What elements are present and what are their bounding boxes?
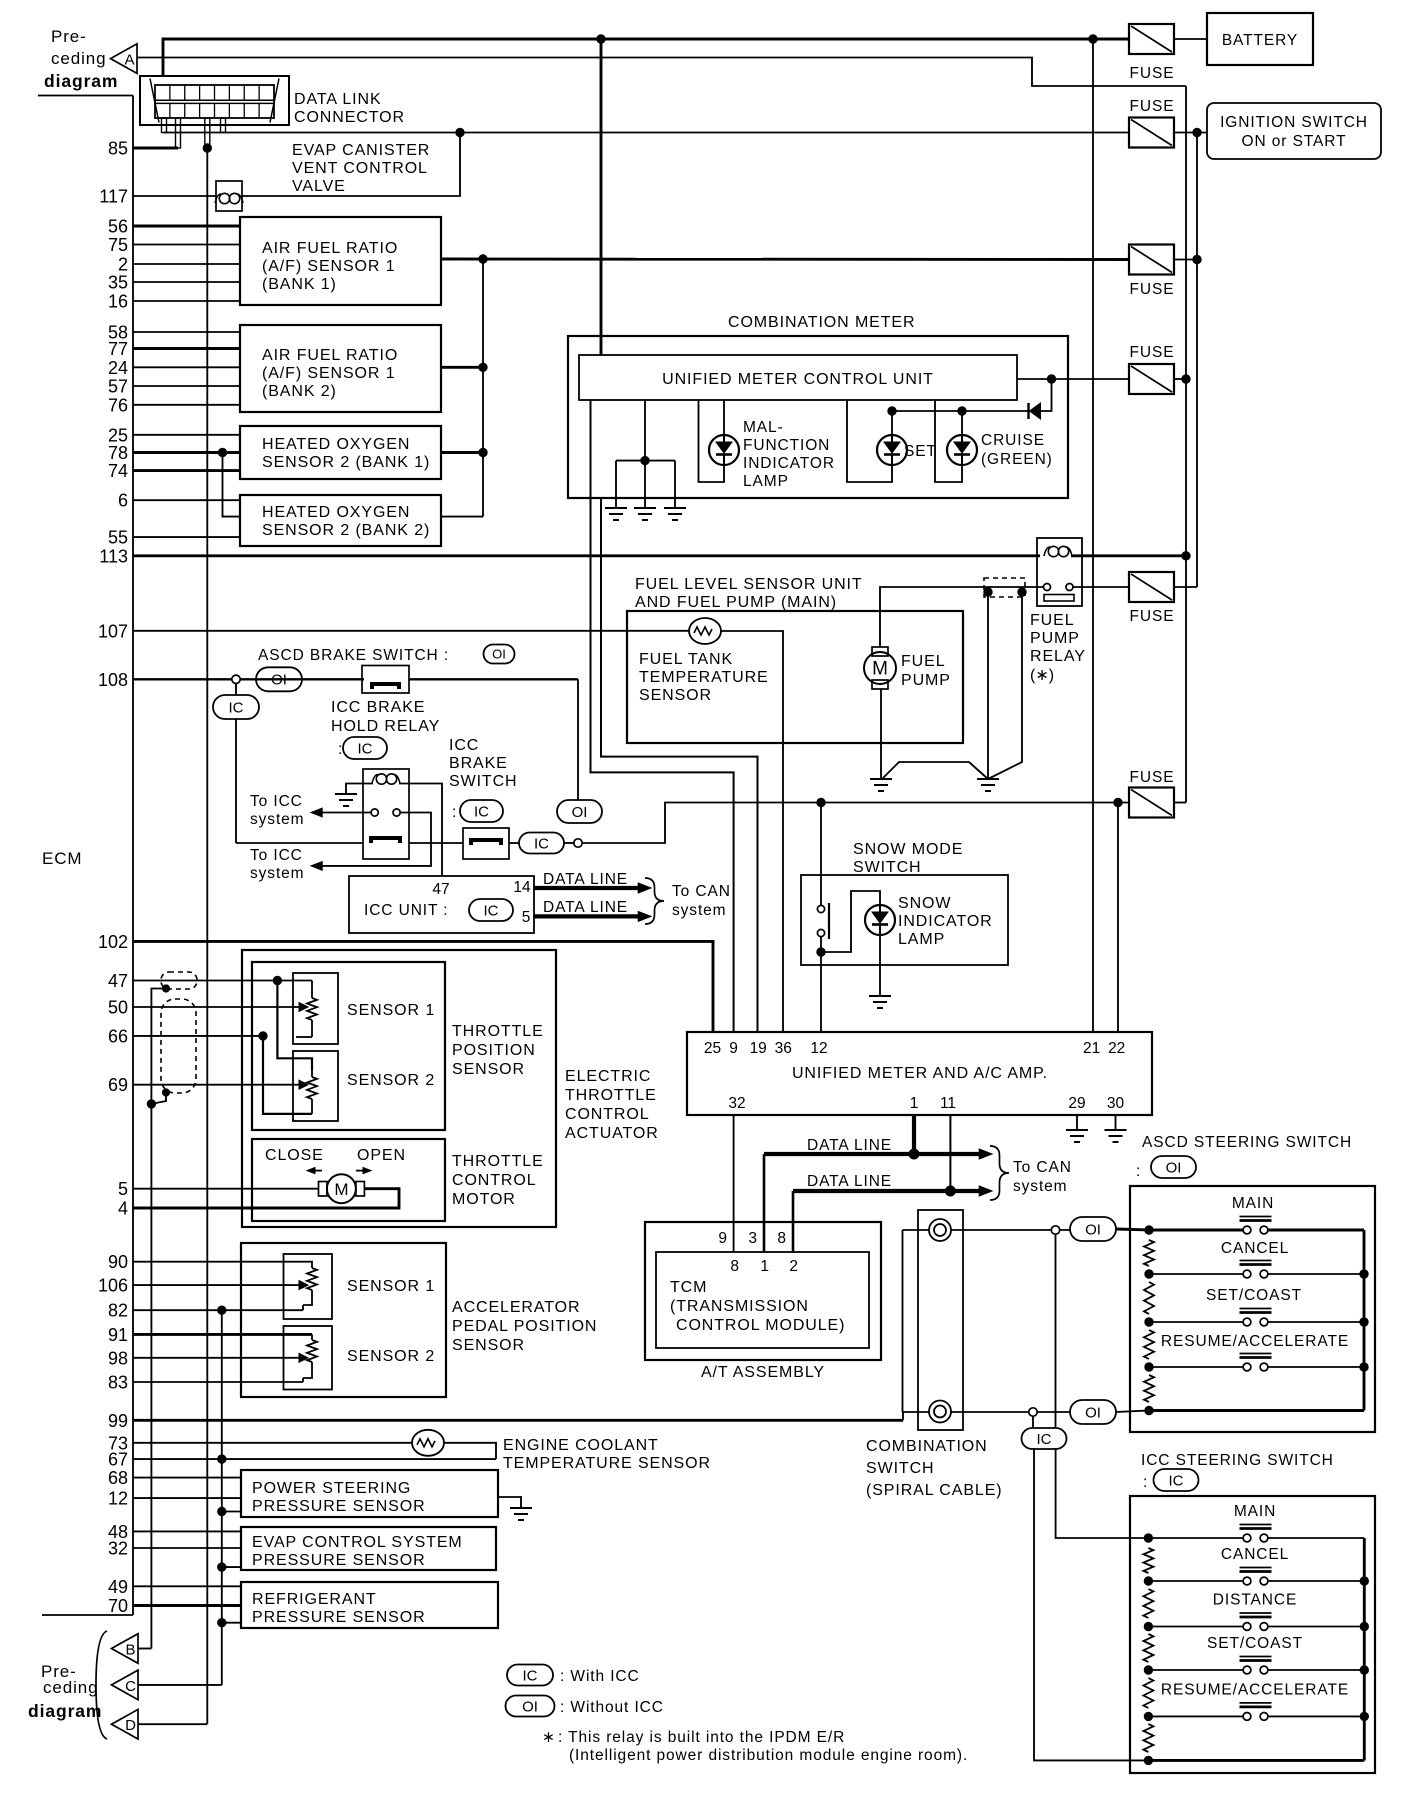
node ICC bottom left (1144, 1756, 1152, 1764)
wire A/F sensor 1 bank1 power (441, 258, 1129, 261)
svg-text:DISTANCE: DISTANCE (1213, 1592, 1297, 1609)
node ICC line connector (1029, 1408, 1037, 1416)
svg-text:2: 2 (789, 1258, 798, 1275)
combination switch spiral cable box (918, 1210, 963, 1430)
wire ECM pin 58 (133, 331, 240, 333)
svg-text:SENSOR: SENSOR (452, 1061, 525, 1078)
wire ECM pin 90 to APP (133, 1261, 303, 1263)
ground PS sensor (510, 1507, 532, 1509)
wire ECM pin 69 to TPS wiper (133, 1084, 294, 1086)
wire ECM pin 91 to APP (133, 1333, 312, 1336)
svg-text:IC: IC (1037, 1431, 1052, 1448)
wire fuel pump relay contact drop (988, 592, 1022, 779)
node ASCD cancel left (1145, 1270, 1153, 1278)
svg-text:(BANK 2): (BANK 2) (262, 383, 337, 400)
svg-text:FUNCTION: FUNCTION (743, 437, 830, 454)
wire CRUISE lamp loop (935, 400, 962, 482)
node pin 67 branch (218, 1455, 226, 1463)
wiper TPS sensor 1 (299, 1003, 308, 1012)
svg-text:OI: OI (1085, 1221, 1101, 1238)
resistor ASCD 2 (1144, 1282, 1154, 1314)
node battery feed junction at combination meter drop (597, 35, 605, 43)
SET indicator LED (877, 435, 907, 465)
wire ICC DISTANCE row (1148, 1626, 1245, 1628)
wire fuse to battery (1174, 38, 1207, 40)
wire ignition bus (1196, 133, 1198, 588)
diode lamp feed (1027, 403, 1029, 419)
svg-text:8: 8 (777, 1230, 786, 1247)
node refrigerant sensor ground (218, 1619, 226, 1627)
wire ECM pin 113 to fuel pump relay coil (133, 554, 1040, 557)
svg-text:32: 32 (728, 1095, 745, 1112)
svg-text:CANCEL: CANCEL (1221, 1546, 1289, 1563)
wire ECM pin 70 (133, 1604, 241, 1607)
ground relay coil (335, 793, 357, 795)
node snow switch feed (817, 798, 825, 806)
IC pill steering feed (1022, 1428, 1067, 1449)
node meter fuse junction (1182, 375, 1190, 383)
svg-text:(A/F) SENSOR 1: (A/F) SENSOR 1 (262, 258, 396, 275)
svg-text:29: 29 (1068, 1095, 1085, 1112)
resistor ICC 1 (1143, 1548, 1153, 1573)
svg-text::: : (1143, 1474, 1147, 1491)
svg-text:FUSE: FUSE (1130, 344, 1175, 361)
svg-text:75: 75 (108, 235, 128, 255)
svg-text:OI: OI (522, 1698, 538, 1715)
DLC pin stub 4 (221, 118, 226, 133)
TPS sensor 1 sub-box (293, 973, 338, 1044)
EVAP control system pressure sensor box (241, 1527, 496, 1570)
svg-text:21: 21 (1083, 1040, 1100, 1057)
heated oxygen sensor 2 bank 1 box (240, 426, 441, 479)
ICC hold relay moving contact (371, 838, 400, 843)
svg-text:HEATED OXYGEN: HEATED OXYGEN (262, 436, 410, 453)
wire ASCD brake switch to drop (409, 678, 578, 680)
svg-text:(∗): (∗) (1030, 667, 1054, 684)
switch ICC CANCEL (1243, 1577, 1251, 1585)
svg-text:∗: ∗ (542, 1729, 555, 1746)
svg-text:ICC: ICC (449, 737, 479, 754)
wire ECM pin 102 to amp pin 25 (133, 941, 713, 1032)
svg-text:PRESSURE SENSOR: PRESSURE SENSOR (252, 1552, 426, 1569)
switch ASCD RESUME/ACCELERATE (1243, 1363, 1251, 1371)
wire pin108 branch down (235, 684, 237, 844)
svg-text:FUSE: FUSE (1130, 281, 1175, 298)
svg-text:CANCEL: CANCEL (1221, 1240, 1289, 1257)
fuel pump motor (864, 652, 896, 684)
malfunction indicator lamp LED (709, 435, 739, 465)
svg-text:system: system (1013, 1178, 1068, 1195)
data line amp 2 (793, 1189, 985, 1193)
svg-text:FUEL: FUEL (901, 653, 946, 670)
svg-text:SNOW: SNOW (898, 895, 951, 912)
wire ASCD connector branch down (1055, 1234, 1057, 1429)
wire relay coil to ground (346, 784, 373, 794)
wire IC pill to ICC bottom (1034, 1448, 1148, 1760)
wire ECM pin 55 (133, 536, 240, 538)
accelerator pedal position sensor box (241, 1243, 446, 1397)
svg-text:system: system (250, 865, 305, 882)
svg-text:FUEL TANK: FUEL TANK (639, 651, 733, 668)
fuel tank temperature sensor thermistor (689, 618, 721, 644)
svg-text:TCM: TCM (670, 1279, 707, 1296)
svg-text:FUEL: FUEL (1030, 612, 1075, 629)
svg-text:49: 49 (108, 1577, 128, 1597)
svg-text:SNOW MODE: SNOW MODE (853, 841, 963, 858)
svg-text:117: 117 (99, 187, 128, 207)
legend IC pill (507, 1665, 553, 1686)
wire relay contact to ICC system 2 (321, 813, 431, 866)
svg-text:LAMP: LAMP (743, 473, 789, 490)
svg-text:RESUME/ACCELERATE: RESUME/ACCELERATE (1161, 1681, 1349, 1698)
wire ICC CANCEL row (1148, 1580, 1245, 1582)
svg-text:DATA LINE: DATA LINE (543, 899, 628, 916)
wire ECM pin 25 (133, 434, 240, 436)
wire EVAP sensor ground branch (222, 1566, 241, 1568)
wire diode to fuse tap (1040, 379, 1052, 411)
wire spiral cable riser (902, 1412, 904, 1420)
wire connector to snow feed (582, 803, 1129, 844)
wire ECT sensor return (444, 1443, 496, 1459)
svg-text:SENSOR 2 (BANK 2): SENSOR 2 (BANK 2) (262, 522, 430, 539)
svg-text:3: 3 (748, 1230, 757, 1247)
svg-text:14: 14 (513, 879, 531, 896)
data line ICC 2 (534, 914, 644, 918)
connector triangle A (111, 44, 138, 74)
connector triangle C (112, 1670, 139, 1700)
ICC brake hold relay box (363, 769, 409, 859)
svg-text:BATTERY: BATTERY (1222, 32, 1298, 49)
wire ECM pin 24 (133, 366, 240, 368)
wire HO2S bank1 power (441, 451, 483, 454)
wiper TPS sensor 2 (299, 1080, 308, 1089)
ground snow lamp (869, 995, 891, 997)
svg-text:IC: IC (484, 902, 499, 919)
svg-text:56: 56 (108, 217, 128, 237)
svg-text:25: 25 (704, 1040, 721, 1057)
node pin 78 shield tap (218, 448, 226, 456)
node ignition bus junction (1193, 128, 1201, 136)
wire ECM pin 82 to APP (133, 1309, 303, 1311)
svg-text:OI: OI (492, 647, 506, 662)
DLC pin stub 3 (205, 118, 210, 148)
wire ECM pin 50 to TPS wiper (133, 1006, 294, 1008)
svg-text:47: 47 (432, 881, 449, 898)
svg-text:OPEN: OPEN (357, 1147, 406, 1164)
data line ICC 1 (534, 886, 644, 890)
svg-text:INDICATOR: INDICATOR (898, 913, 993, 930)
wire meter ground bracket (644, 400, 646, 461)
wire ECM pin 56 (133, 225, 240, 228)
wire TPS return to sensor 2 (263, 1036, 312, 1114)
svg-text:5: 5 (118, 1179, 128, 1199)
svg-text:2: 2 (118, 255, 128, 275)
wire ICC brake switch to connector (509, 842, 519, 844)
svg-text:To CAN: To CAN (1013, 1159, 1072, 1176)
svg-text:78: 78 (108, 443, 128, 463)
svg-text:OI: OI (1166, 1159, 1182, 1176)
switch ICC SET/COAST (1243, 1666, 1251, 1674)
wire ECM pin 47 to TPS (133, 980, 312, 982)
node pin 82 branch (218, 1306, 226, 1314)
wire from triangle A to right bus (137, 58, 1186, 87)
svg-text:HEATED OXYGEN: HEATED OXYGEN (262, 504, 410, 521)
node ICC RESUME/ACCELERATE right (1360, 1712, 1368, 1720)
svg-text:35: 35 (108, 273, 128, 293)
wire ECM pin 74 (133, 469, 240, 472)
svg-text:IC: IC (358, 740, 373, 757)
svg-text:To ICC: To ICC (250, 847, 303, 864)
connector triangle D (112, 1709, 139, 1739)
TCM box (656, 1252, 869, 1348)
wire DLC ground line to connector D (206, 148, 208, 1724)
svg-text:ICC BRAKE: ICC BRAKE (331, 699, 425, 716)
node junction EVAP valve feed (456, 128, 464, 136)
wire ECM pin 67 (133, 1458, 496, 1460)
wire ECM pin 107 (133, 630, 690, 632)
node ASCD main left (1145, 1226, 1153, 1234)
wire amp pin 11 drop (949, 1115, 951, 1191)
wire triangle D (138, 1723, 207, 1725)
wire battery bus to meter amp pin 21 (1092, 39, 1094, 1032)
svg-text:PRESSURE SENSOR: PRESSURE SENSOR (252, 1498, 426, 1515)
svg-text:ceding: ceding (51, 49, 107, 68)
OI pill ICC steering feed (1070, 1400, 1116, 1424)
svg-text:VENT CONTROL: VENT CONTROL (292, 160, 428, 177)
svg-text:Pre-: Pre- (51, 27, 87, 46)
throttle position sensor box (252, 962, 445, 1130)
wire ECM pin 73 to ECT sensor (133, 1442, 413, 1444)
node meter fuse tap (1047, 375, 1055, 383)
IC pill pin108 branch (213, 695, 259, 719)
svg-text:102: 102 (98, 932, 128, 952)
wire ECM pin 106 to APP wiper (133, 1284, 294, 1286)
svg-text:36: 36 (775, 1040, 792, 1057)
node ICC RESUME/ACCELERATE left (1144, 1712, 1152, 1720)
svg-text:A: A (124, 52, 134, 69)
wire ECM pin 35 (133, 281, 240, 283)
wire shield tall drain (151, 1093, 166, 1104)
svg-text:DATA LINE: DATA LINE (807, 1137, 892, 1154)
svg-text:ceding: ceding (43, 1678, 99, 1697)
wire meter output to amp pin 19 (601, 498, 758, 1032)
wire ECM pin 85 (133, 147, 178, 150)
wire ECM pin 49 (133, 1585, 241, 1587)
svg-text:1: 1 (910, 1095, 919, 1112)
wire thermistor to meter amp pin 36 (721, 631, 783, 1032)
wire OI pill to ASCD switch box (1116, 1229, 1149, 1230)
fuse battery (1129, 24, 1174, 54)
svg-text:SENSOR 1: SENSOR 1 (347, 1278, 435, 1295)
svg-text:69: 69 (108, 1075, 128, 1095)
wire ICC bottom row (1148, 1759, 1364, 1762)
svg-text:system: system (672, 902, 727, 919)
svg-text::: : (338, 741, 342, 758)
wire snow lamp branch (821, 891, 880, 952)
node HO2S bank1 power junction (479, 448, 487, 456)
wire unified meter control unit to fuse (1017, 378, 1129, 380)
wire EVAP valve to ignition feed (242, 133, 460, 197)
wire ICC RESUME/ACCELERATE row (1148, 1715, 1245, 1717)
svg-text:ACCELERATOR: ACCELERATOR (452, 1299, 580, 1316)
fuel pump relay contacts (1044, 584, 1051, 591)
throttle motor (327, 1174, 356, 1203)
svg-text:82: 82 (108, 1301, 128, 1321)
wire pin 22 bus (1117, 803, 1119, 1033)
wire snow lamp to ground (879, 935, 881, 995)
wire relay line to pin108 branch (236, 842, 363, 844)
svg-text:106: 106 (98, 1276, 128, 1296)
ICC brake hold relay coil (372, 775, 378, 784)
ICC steering switch box (1130, 1496, 1375, 1773)
node fuse line to pin22 (1114, 798, 1122, 806)
node SET lamp feed (888, 407, 896, 415)
svg-text:THROTTLE: THROTTLE (452, 1153, 544, 1170)
svg-text:DATA LINE: DATA LINE (807, 1173, 892, 1190)
node A/F fuse to ignition bus (1193, 255, 1201, 263)
svg-text:83: 83 (108, 1373, 128, 1393)
svg-text:SENSOR: SENSOR (452, 1337, 525, 1354)
wire fuel pump fuse to ignition bus (1174, 586, 1197, 588)
resistor ASCD 3 (1144, 1330, 1154, 1359)
svg-text:SWITCH: SWITCH (449, 773, 518, 790)
node shield drain junction (147, 1100, 155, 1108)
wire DLC to ignition fuse (164, 132, 1129, 134)
svg-text:4: 4 (118, 1199, 128, 1219)
svg-text:BRAKE: BRAKE (449, 755, 508, 772)
wire fuse to ignition switch (1174, 132, 1207, 134)
data line amp 1 (764, 1152, 985, 1156)
svg-text:SENSOR 2 (BANK 1): SENSOR 2 (BANK 1) (262, 454, 430, 471)
node ASCD bottom left (1145, 1406, 1153, 1414)
wire OI pill to ASCD box bottom (1116, 1411, 1149, 1413)
svg-text:PUMP: PUMP (901, 672, 951, 689)
svg-text:TEMPERATURE: TEMPERATURE (639, 669, 769, 686)
ground amp pin 29 (1066, 1129, 1088, 1131)
shielded cable loop pin 47 (dashed) (161, 972, 197, 989)
data link connector (140, 76, 289, 125)
wire to ASCD brake switch (240, 678, 364, 680)
electric throttle control actuator box (242, 950, 556, 1227)
svg-text:FUEL LEVEL SENSOR UNIT: FUEL LEVEL SENSOR UNIT (635, 576, 863, 593)
wire fuel sender bridge (882, 762, 988, 779)
node fuel pump connector left (984, 588, 992, 596)
wire snow fuse to battery bus (1175, 802, 1186, 804)
heated oxygen sensor 2 bank 2 box (240, 495, 441, 546)
node TPS supply junction (273, 976, 281, 984)
shielded cable loop pins 50-69 (dashed) (161, 999, 196, 1093)
svg-text:REFRIGERANT: REFRIGERANT (252, 1591, 377, 1608)
svg-text:70: 70 (108, 1596, 128, 1616)
wire A/F fuse to ignition bus (1174, 259, 1197, 261)
svg-text:DATA LINE: DATA LINE (543, 871, 628, 888)
svg-text:67: 67 (108, 1450, 128, 1470)
node coil to battery bus junction (1182, 552, 1190, 560)
air fuel ratio sensor 1 bank 1 box (240, 217, 441, 305)
refrigerant pressure sensor box (241, 1582, 498, 1628)
wire ASCD cancel row (1149, 1273, 1245, 1275)
svg-text:30: 30 (1107, 1095, 1125, 1112)
svg-text:ON or START: ON or START (1242, 133, 1347, 150)
svg-text:C: C (125, 1678, 136, 1695)
to CAN system brace (amp) (990, 1146, 1009, 1200)
ground fuel pump (870, 778, 892, 780)
wire MIL top lead (723, 400, 725, 435)
unified meter and A/C amp box (687, 1032, 1152, 1115)
svg-text:IC: IC (1169, 1472, 1184, 1489)
svg-text:AIR FUEL RATIO: AIR FUEL RATIO (262, 347, 398, 364)
wire battery feed into meter (600, 39, 603, 355)
wire amp pin 29 ground (1076, 1115, 1078, 1130)
svg-text:1: 1 (760, 1258, 769, 1275)
ECM connector rail (38, 95, 133, 97)
svg-text:22: 22 (1108, 1040, 1125, 1057)
fuel pump relay box (1037, 538, 1082, 606)
svg-text:11: 11 (940, 1095, 956, 1112)
node data line 1 junction (909, 1149, 919, 1159)
svg-text:MAIN: MAIN (1232, 1195, 1274, 1212)
wire ECM pin 68 (133, 1477, 241, 1479)
wire ECM pin 12 (133, 1497, 241, 1499)
OI pill on pin 108 (256, 667, 302, 691)
svg-text:ASCD STEERING SWITCH: ASCD STEERING SWITCH (1142, 1134, 1352, 1151)
svg-text:16: 16 (108, 292, 128, 312)
svg-text:POSITION: POSITION (452, 1042, 536, 1059)
svg-text:MAL-: MAL- (743, 419, 784, 436)
svg-text:107: 107 (98, 621, 128, 641)
svg-text:EVAP CONTROL SYSTEM: EVAP CONTROL SYSTEM (252, 1534, 463, 1551)
ground meter 2 (634, 507, 656, 509)
wire fuel pump relay coil to battery bus (1071, 554, 1186, 557)
wire meter output to amp pin 9 (591, 400, 734, 1032)
ignition switch box (1207, 103, 1381, 159)
svg-text:UNIFIED METER CONTROL UNIT: UNIFIED METER CONTROL UNIT (662, 371, 934, 388)
node ASCD resume left (1145, 1363, 1153, 1371)
svg-text:(Intelligent power distributio: (Intelligent power distribution module e… (569, 1747, 968, 1764)
svg-text:ICC STEERING SWITCH: ICC STEERING SWITCH (1141, 1452, 1334, 1469)
resistor APP sensor 1 (303, 1262, 312, 1268)
node ICC SET/COAST right (1360, 1666, 1368, 1674)
svg-text:THROTTLE: THROTTLE (565, 1087, 657, 1104)
DLC pin stub 2 (176, 118, 181, 148)
svg-text:B: B (125, 1642, 135, 1659)
svg-text:CONNECTOR: CONNECTOR (294, 109, 405, 126)
svg-text:FUSE: FUSE (1130, 98, 1175, 115)
node fuel pump connector right (1018, 588, 1026, 596)
svg-text:74: 74 (108, 461, 128, 481)
svg-text:PEDAL POSITION: PEDAL POSITION (452, 1318, 597, 1335)
svg-text:77: 77 (108, 339, 128, 359)
wire shield drain to connector B (150, 1104, 152, 1649)
wire pin78 tap to HO2S bank2 (223, 453, 241, 517)
svg-text:32: 32 (108, 1539, 128, 1559)
wire ECM pin 78 (133, 451, 240, 454)
svg-text:To CAN: To CAN (672, 883, 731, 900)
node DLC stub junction on pin 85 wire (203, 144, 211, 152)
wire ground leg 1 (615, 461, 617, 508)
svg-text:CRUISE: CRUISE (981, 432, 1045, 449)
node shield 47 drain (162, 985, 169, 992)
resistor ICC 5 (1143, 1724, 1153, 1752)
svg-text:LAMP: LAMP (898, 931, 945, 948)
throttle control motor box (252, 1139, 445, 1221)
svg-text:M: M (872, 659, 888, 680)
wire fuel level sender to ground (987, 592, 989, 779)
svg-text:113: 113 (99, 546, 128, 566)
spiral cable contact bottom (903, 1411, 929, 1413)
snow switch contacts (817, 905, 824, 912)
svg-text:: With ICC: : With ICC (560, 1668, 640, 1685)
